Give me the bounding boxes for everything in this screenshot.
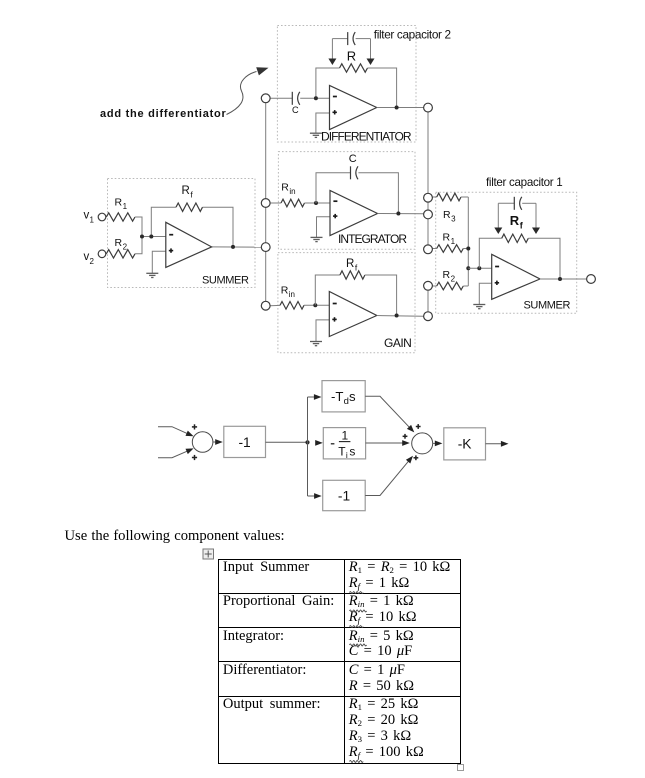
svg-text:C: C [292, 105, 299, 115]
svg-text:R1: R1 [443, 232, 456, 247]
svg-text:-1: -1 [238, 435, 250, 450]
svg-text:Rin: Rin [281, 285, 295, 300]
svg-text:R1: R1 [115, 197, 128, 212]
svg-text:Rf: Rf [182, 185, 194, 200]
svg-text:INTEGRATOR: INTEGRATOR [338, 232, 407, 246]
svg-text:R3: R3 [443, 209, 456, 224]
svg-text:add the differentiator: add the differentiator [100, 108, 227, 120]
svg-text:SUMMER: SUMMER [524, 300, 571, 312]
svg-text:R: R [347, 48, 356, 63]
svg-text:-K: -K [458, 437, 473, 452]
svg-text:Rin: Rin [281, 182, 295, 197]
svg-text:filter capacitor 1: filter capacitor 1 [486, 176, 562, 189]
svg-text:filter capacitor 2: filter capacitor 2 [374, 28, 451, 42]
svg-text:v1: v1 [84, 209, 95, 224]
svg-text:v2: v2 [84, 251, 95, 266]
svg-text:GAIN: GAIN [384, 336, 411, 350]
svg-text:SUMMER: SUMMER [202, 275, 249, 287]
svg-text:R2: R2 [443, 269, 456, 284]
svg-text:Rf: Rf [510, 213, 524, 231]
svg-text:DIFFERENTIATOR: DIFFERENTIATOR [321, 130, 412, 144]
svg-text:1: 1 [341, 429, 348, 443]
svg-text:Rf: Rf [346, 258, 358, 273]
svg-text:C: C [349, 153, 357, 165]
svg-text:R2: R2 [115, 237, 128, 252]
svg-text:-1: -1 [338, 488, 350, 503]
